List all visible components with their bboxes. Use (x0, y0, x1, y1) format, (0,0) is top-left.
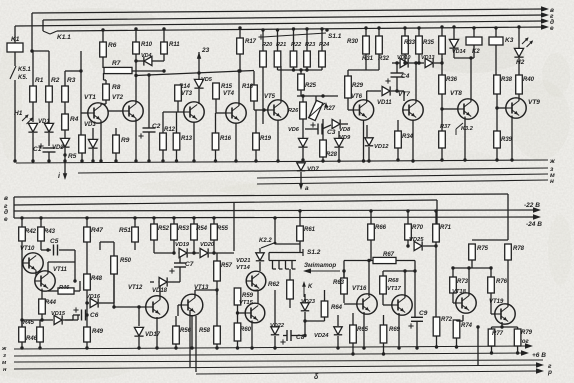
svg-text:ж: ж (1, 346, 7, 352)
svg-text:δ: δ (314, 374, 319, 381)
svg-text:R39: R39 (501, 137, 513, 143)
svg-text:VD10: VD10 (397, 55, 411, 61)
svg-text:VT17: VT17 (387, 286, 402, 292)
svg-text:R33: R33 (404, 40, 416, 46)
svg-text:VD17: VD17 (145, 332, 161, 338)
svg-text:K5.: K5. (18, 75, 28, 81)
svg-text:R4: R4 (70, 116, 79, 123)
svg-text:R59: R59 (242, 293, 254, 299)
svg-text:VD9: VD9 (339, 135, 351, 141)
svg-text:VD11: VD11 (377, 100, 392, 106)
svg-text:R1: R1 (35, 77, 44, 84)
svg-text:S1.1: S1.1 (328, 33, 342, 40)
svg-text:VD22: VD22 (270, 323, 285, 329)
svg-text:-22 В: -22 В (524, 202, 540, 209)
svg-text:C5: C5 (50, 238, 59, 245)
svg-text:R38: R38 (501, 77, 513, 83)
svg-text:R42: R42 (25, 229, 37, 235)
svg-text:VD21: VD21 (236, 258, 251, 264)
svg-text:VD5: VD5 (201, 77, 213, 83)
svg-text:R6: R6 (108, 42, 117, 49)
svg-text:R57: R57 (221, 263, 233, 269)
svg-text:R34: R34 (402, 134, 414, 140)
svg-text:VT1: VT1 (84, 94, 96, 101)
svg-text:-24 В: -24 В (526, 221, 542, 228)
svg-text:R46: R46 (59, 285, 70, 291)
svg-text:R13: R13 (181, 136, 193, 142)
svg-text:R43: R43 (44, 229, 56, 235)
svg-text:R56: R56 (180, 328, 192, 334)
svg-text:р: р (547, 369, 552, 376)
svg-text:R17: R17 (245, 39, 257, 45)
svg-text:VT8: VT8 (450, 90, 462, 97)
svg-text:H1: H1 (14, 110, 23, 117)
svg-text:K3: K3 (505, 37, 514, 44)
svg-text:K1.1: K1.1 (57, 34, 71, 41)
svg-text:R18: R18 (242, 84, 254, 90)
svg-text:VT10: VT10 (20, 246, 35, 252)
svg-text:R54: R54 (196, 226, 208, 232)
svg-text:R44: R44 (45, 300, 57, 306)
svg-text:VD20: VD20 (200, 242, 215, 248)
svg-text:VD16: VD16 (86, 294, 101, 300)
svg-text:R19: R19 (260, 136, 272, 142)
svg-text:R58: R58 (199, 328, 211, 334)
svg-text:R64: R64 (331, 305, 343, 311)
svg-text:R65: R65 (357, 327, 369, 333)
svg-text:VD12: VD12 (374, 144, 389, 150)
svg-text:R31: R31 (362, 56, 374, 62)
svg-text:VT11: VT11 (53, 267, 68, 273)
svg-text:R21: R21 (276, 42, 286, 48)
svg-text:K3.2: K3.2 (461, 126, 474, 132)
svg-text:23: 23 (201, 47, 210, 54)
svg-text:R79: R79 (521, 330, 533, 336)
svg-text:R25: R25 (305, 83, 317, 89)
svg-text:C9: C9 (419, 310, 428, 317)
svg-text:VD25: VD25 (409, 237, 424, 243)
svg-text:VD15: VD15 (51, 311, 66, 317)
svg-text:VD8: VD8 (339, 127, 351, 133)
svg-text:R63: R63 (333, 280, 345, 286)
svg-text:в: в (4, 195, 8, 202)
svg-text:VD6: VD6 (288, 127, 300, 133)
svg-text:S1.2: S1.2 (307, 249, 321, 256)
svg-text:R49: R49 (92, 329, 104, 335)
svg-text:а: а (305, 185, 309, 192)
svg-text:R23: R23 (305, 42, 316, 48)
svg-text:R67: R67 (383, 252, 395, 258)
svg-text:е: е (550, 25, 554, 32)
svg-text:R78: R78 (513, 246, 525, 252)
svg-text:R68: R68 (388, 278, 399, 284)
svg-text:VT2: VT2 (112, 95, 124, 101)
svg-text:R53: R53 (178, 226, 190, 232)
svg-text:е: е (4, 216, 8, 223)
svg-text:VD18: VD18 (152, 288, 168, 294)
svg-text:R51: R51 (119, 227, 131, 234)
svg-text:з: з (3, 353, 6, 359)
svg-text:K5.1: K5.1 (18, 67, 31, 73)
svg-text:R69: R69 (389, 327, 401, 333)
svg-text:VT4: VT4 (223, 91, 235, 97)
svg-text:VD19: VD19 (175, 242, 190, 248)
svg-text:м: м (2, 360, 7, 366)
svg-text:R47: R47 (91, 227, 103, 234)
svg-text:VT18: VT18 (452, 289, 467, 295)
svg-text:R52: R52 (158, 226, 170, 232)
svg-text:VD23: VD23 (301, 299, 316, 305)
svg-text:R16: R16 (220, 136, 232, 142)
svg-text:R8: R8 (112, 84, 121, 91)
svg-text:R7: R7 (112, 60, 121, 67)
svg-text:VD2: VD2 (52, 145, 64, 151)
svg-text:R36: R36 (446, 77, 458, 83)
svg-text:R35: R35 (423, 40, 435, 46)
svg-text:R29: R29 (352, 83, 364, 89)
svg-text:VT16: VT16 (352, 286, 367, 292)
svg-text:C2: C2 (152, 123, 161, 130)
svg-text:VT3: VT3 (181, 91, 193, 97)
svg-text:н: н (550, 178, 554, 185)
svg-text:VD1: VD1 (38, 119, 50, 125)
svg-text:VD13: VD13 (421, 55, 435, 61)
svg-text:VT15: VT15 (239, 300, 254, 306)
svg-text:R50: R50 (120, 258, 132, 264)
svg-text:K1: K1 (11, 36, 20, 43)
svg-text:R20: R20 (262, 42, 273, 48)
svg-text:R27: R27 (324, 106, 336, 112)
svg-text:R75: R75 (477, 246, 489, 252)
svg-text:R60: R60 (240, 327, 252, 333)
svg-text:C3: C3 (327, 129, 336, 136)
svg-text:C4: C4 (401, 73, 410, 80)
svg-text:H2: H2 (516, 59, 525, 66)
svg-text:K: K (308, 284, 313, 290)
svg-text:R71: R71 (440, 225, 452, 231)
svg-text:R55: R55 (217, 226, 229, 232)
svg-text:R2: R2 (51, 77, 60, 84)
svg-text:VT5: VT5 (264, 94, 276, 100)
svg-text:VD7: VD7 (307, 167, 319, 173)
svg-text:R22: R22 (291, 42, 302, 48)
svg-text:R9: R9 (121, 137, 130, 144)
svg-text:R5: R5 (68, 153, 77, 160)
svg-text:R26: R26 (288, 108, 299, 114)
svg-text:R74: R74 (461, 323, 473, 329)
svg-text:K2: K2 (472, 49, 480, 55)
svg-text:Змітатор: Змітатор (304, 262, 336, 269)
svg-text:R62: R62 (268, 281, 280, 288)
svg-text:VD24: VD24 (314, 333, 329, 339)
svg-text:R40: R40 (523, 77, 535, 83)
svg-text:K2.2: K2.2 (259, 238, 272, 244)
svg-text:R70: R70 (412, 225, 424, 231)
svg-text:R48: R48 (91, 276, 103, 282)
svg-text:+6 В: +6 В (532, 352, 546, 359)
svg-text:R45: R45 (23, 320, 35, 326)
svg-text:R28: R28 (326, 152, 338, 158)
svg-text:R30: R30 (347, 39, 359, 45)
svg-text:R10: R10 (141, 42, 153, 48)
svg-text:R46: R46 (26, 336, 38, 342)
svg-text:VT12: VT12 (128, 285, 143, 291)
svg-text:R73: R73 (457, 279, 469, 285)
svg-text:R66: R66 (375, 225, 387, 231)
svg-text:VT7: VT7 (398, 91, 410, 98)
svg-text:R72: R72 (441, 317, 453, 323)
svg-text:R11: R11 (169, 42, 180, 48)
svg-text:VD4: VD4 (141, 53, 152, 59)
svg-text:R3: R3 (67, 77, 76, 84)
svg-text:н: н (3, 367, 7, 373)
svg-text:VT6: VT6 (351, 94, 363, 100)
svg-text:C7: C7 (185, 261, 194, 268)
svg-text:R15: R15 (221, 84, 233, 90)
svg-text:R32: R32 (378, 56, 390, 62)
svg-text:R76: R76 (496, 279, 508, 285)
svg-text:д: д (4, 208, 8, 216)
svg-text:R12: R12 (164, 127, 176, 133)
svg-text:R77: R77 (492, 331, 504, 337)
svg-text:VT9: VT9 (528, 99, 540, 106)
svg-text:R61: R61 (304, 227, 316, 233)
svg-text:R24: R24 (319, 42, 330, 48)
svg-text:C6: C6 (90, 312, 99, 319)
svg-text:C1: C1 (33, 146, 42, 153)
svg-text:VT14: VT14 (236, 265, 251, 271)
